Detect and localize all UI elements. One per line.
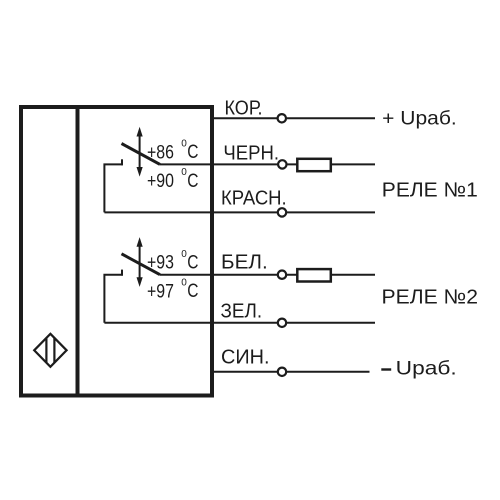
svg-text:Uраб.: Uраб. bbox=[396, 357, 457, 379]
svg-text:+97: +97 bbox=[147, 281, 174, 302]
svg-text:C: C bbox=[187, 253, 198, 274]
svg-text:КОР.: КОР. bbox=[225, 97, 263, 120]
wire SK1 pivot bracket bbox=[104, 164, 123, 212]
thermal switch SK2 blade bbox=[122, 254, 161, 275]
svg-text:C: C bbox=[187, 142, 198, 163]
wire SK2 pivot bracket bbox=[104, 275, 123, 323]
wire СИН (blue) bbox=[212, 371, 370, 373]
terminal circle СИН bbox=[278, 368, 286, 376]
svg-text:СИН.: СИН. bbox=[221, 345, 270, 368]
svg-text:КРАСН.: КРАСН. bbox=[221, 186, 287, 209]
sensor symbol (diamond) bbox=[34, 334, 66, 367]
label +93 C bbox=[147, 249, 198, 274]
thermal switch SK1 blade bbox=[122, 144, 161, 165]
terminal circle КРАСН bbox=[278, 208, 286, 216]
thermal switch SK1 fixed contact tick bbox=[121, 159, 123, 165]
terminal circle КОР bbox=[278, 114, 286, 122]
svg-text:БЕЛ.: БЕЛ. bbox=[221, 251, 268, 274]
wire ЧЕРН (black) bbox=[160, 163, 375, 165]
device body outline bbox=[21, 107, 212, 396]
label +97 C bbox=[147, 278, 198, 303]
wire КОР (brown) bbox=[212, 117, 375, 119]
resistor R2 bbox=[297, 269, 331, 281]
svg-text:+ Uраб.: + Uраб. bbox=[382, 108, 457, 130]
wire ЗЕЛ (green) bbox=[104, 322, 375, 324]
resistor R1 bbox=[297, 159, 331, 171]
terminal circle БЕЛ bbox=[278, 271, 286, 279]
wire БЕЛ (white) bbox=[160, 274, 375, 276]
svg-text:РЕЛЕ №1: РЕЛЕ №1 bbox=[382, 179, 478, 202]
svg-text:+93: +93 bbox=[147, 253, 174, 274]
svg-text:ЗЕЛ.: ЗЕЛ. bbox=[221, 299, 263, 322]
terminal circle ЧЕРН bbox=[278, 160, 286, 168]
terminal circle ЗЕЛ bbox=[278, 319, 286, 327]
svg-text:РЕЛЕ №2: РЕЛЕ №2 bbox=[382, 286, 479, 309]
svg-text:C: C bbox=[187, 171, 198, 192]
svg-text:+90: +90 bbox=[147, 171, 174, 192]
label +90 C bbox=[147, 167, 198, 192]
svg-text:C: C bbox=[187, 281, 198, 302]
label +86 C bbox=[147, 139, 198, 164]
thermal switch SK2 fixed contact tick bbox=[121, 270, 123, 276]
sensing face divider bbox=[76, 105, 80, 398]
thermal switch SK1 actuation arrow bbox=[137, 127, 143, 177]
label - Uраб. bbox=[381, 357, 456, 379]
thermal switch SK2 actuation arrow bbox=[137, 237, 143, 287]
svg-text:ЧЕРН.: ЧЕРН. bbox=[223, 141, 279, 164]
svg-text:+86: +86 bbox=[147, 142, 174, 163]
wire КРАСН (red) bbox=[104, 211, 375, 213]
